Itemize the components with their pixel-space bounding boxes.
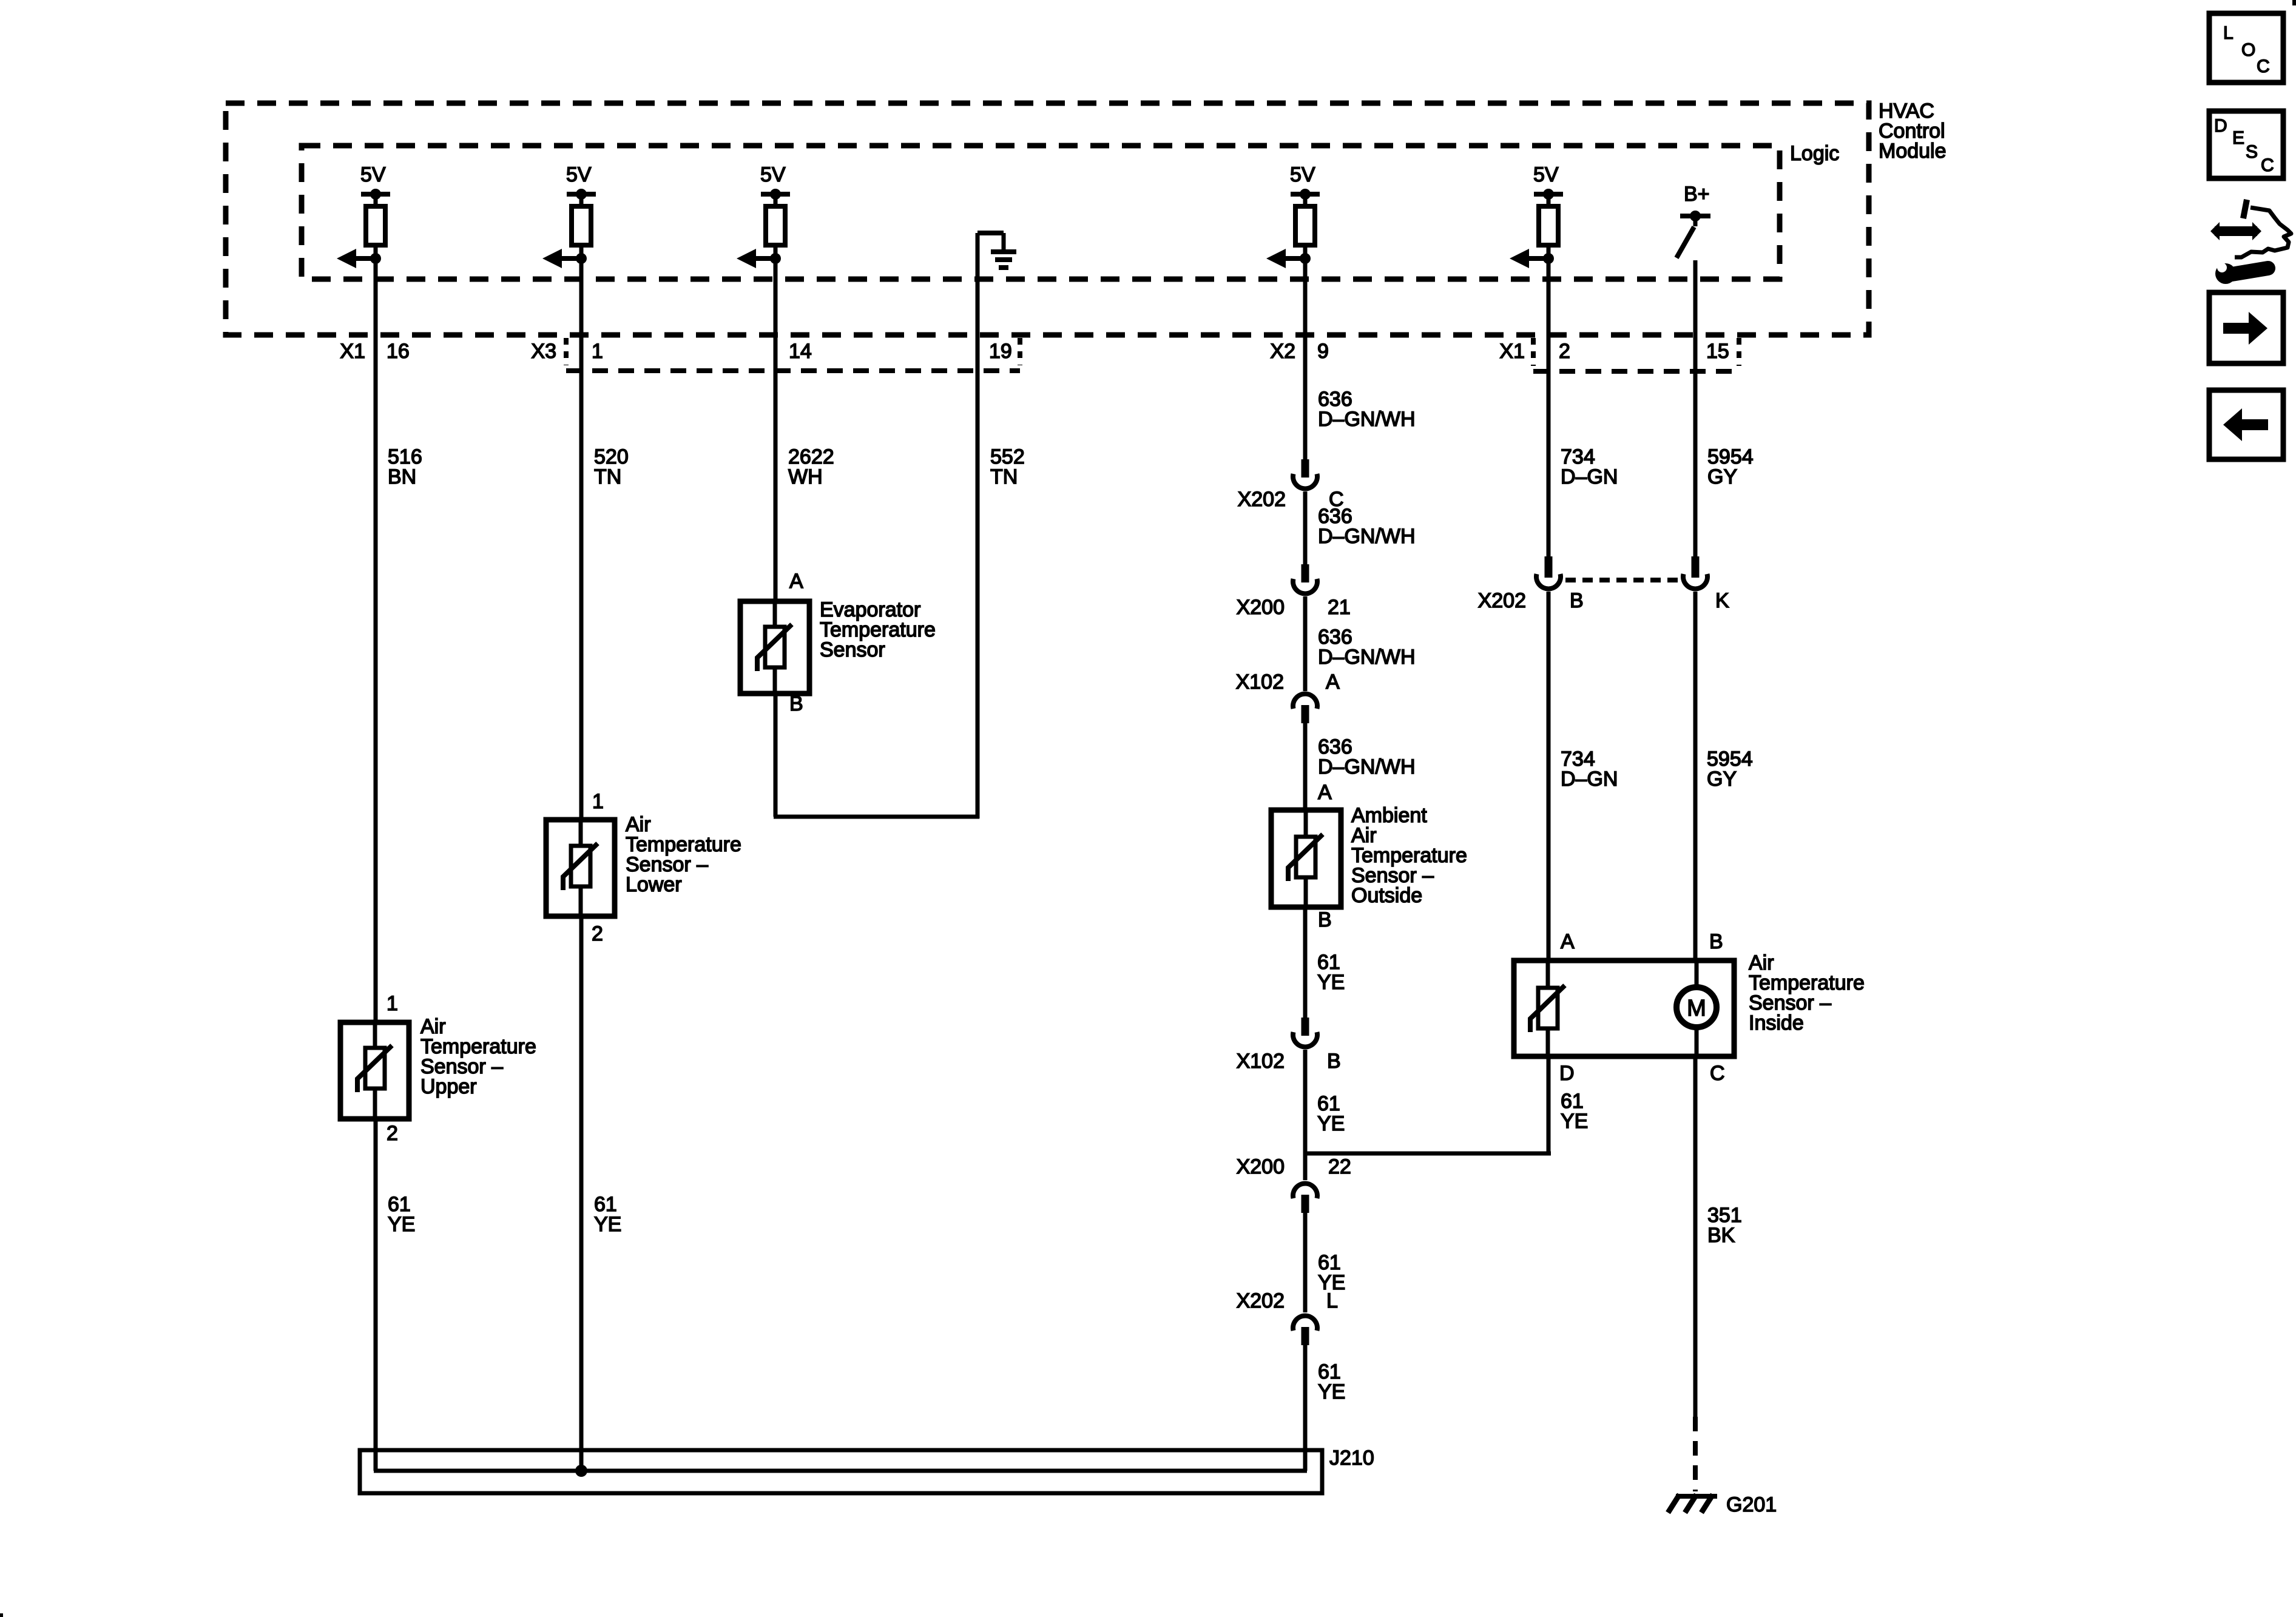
label Ambient Air Temperature Sensor - Outside	[1351, 804, 1467, 907]
Air Temperature Sensor - Inside box	[1514, 960, 1734, 1056]
pull-up resistor at x=958	[579, 194, 584, 206]
internal signal ground symbol (Logic)	[977, 233, 1016, 337]
wire label 61 YE (W5-4)	[1318, 1360, 1345, 1403]
junction dot (W2 at J210 bus)	[575, 1465, 587, 1477]
svg-text:A: A	[1318, 781, 1332, 804]
svg-text:B+: B+	[1684, 183, 1710, 206]
J210 internal bus wire	[374, 1469, 1307, 1473]
connector X102 A	[1293, 694, 1317, 723]
svg-text:C: C	[2257, 56, 2270, 76]
signal tap arrow at x=619	[374, 245, 378, 258]
wire 61 YE (W5 seg 6)	[1303, 1050, 1308, 1180]
svg-text:Upper: Upper	[420, 1075, 477, 1098]
thermistor (lower sensor)	[563, 820, 598, 916]
pull-up resistor at x=2151	[1303, 194, 1308, 206]
svg-text:5V: 5V	[566, 163, 592, 186]
svg-text:O: O	[2241, 40, 2255, 60]
svg-text:K: K	[1715, 589, 1729, 612]
corner mark top right	[2292, 0, 2296, 5]
connector X202 L	[1293, 1316, 1317, 1345]
svg-text:YE: YE	[1317, 971, 1345, 994]
svg-text:1: 1	[592, 340, 603, 363]
svg-text:X102: X102	[1237, 1050, 1285, 1073]
svg-text:X202: X202	[1478, 589, 1526, 612]
wire 61 YE (W1 lower segment)	[374, 1119, 378, 1471]
forward arrow icon box	[2209, 292, 2283, 363]
svg-text:B: B	[1709, 930, 1723, 953]
wire label 636 D-GN/WH (2)	[1318, 505, 1416, 548]
svg-text:YE: YE	[1318, 1380, 1345, 1403]
label HVAC Control Module	[1879, 100, 1947, 163]
wire 516 BN (W1 upper segment)	[374, 258, 378, 1024]
svg-text:YE: YE	[594, 1213, 621, 1236]
wire label 636 D-GN/WH (3)	[1318, 626, 1416, 669]
svg-text:9: 9	[1317, 340, 1329, 363]
wire label 520 TN	[594, 445, 629, 488]
svg-text:22: 22	[1328, 1155, 1351, 1178]
Logic dashed box	[302, 146, 1780, 279]
LOC icon box	[2209, 13, 2283, 83]
svg-text:X2: X2	[1270, 340, 1295, 363]
svg-text:Lower: Lower	[626, 873, 682, 896]
wire 734 D-GN (W6 seg 2)	[1547, 592, 1551, 962]
wire label 5954 GY (2)	[1707, 748, 1753, 791]
svg-text:16: 16	[387, 340, 410, 363]
svg-text:X200: X200	[1237, 596, 1285, 619]
signal tap arrow at x=2151	[1303, 245, 1308, 258]
label Air Temperature Sensor - Lower	[626, 813, 741, 896]
svg-text:2: 2	[1559, 340, 1570, 363]
wire label 61 YE (W6)	[1561, 1090, 1588, 1133]
connector X202 B	[1536, 556, 1561, 589]
connector label X200 21	[1237, 596, 1351, 619]
wire label 61 YE (W2)	[594, 1193, 621, 1236]
svg-text:X1: X1	[340, 340, 365, 363]
svg-text:E: E	[2232, 128, 2244, 148]
svg-text:B: B	[1570, 589, 1584, 612]
wire 5954 GY (W7 seg 1)	[1693, 260, 1698, 556]
junction dot at x=2151	[1300, 253, 1311, 264]
connector label X102 A	[1236, 670, 1340, 694]
pull-up resistor at x=1278	[774, 194, 778, 206]
hand with wrench icon	[2210, 200, 2291, 284]
svg-text:YE: YE	[1317, 1112, 1345, 1135]
svg-text:TN: TN	[594, 465, 621, 488]
pin label X2 9	[1270, 340, 1329, 363]
signal tap arrow at x=958	[579, 245, 584, 258]
svg-text:Logic: Logic	[1790, 142, 1839, 165]
junction dot at x=1278	[770, 253, 781, 264]
wire label 61 YE (W5-1)	[1317, 951, 1345, 994]
svg-text:YE: YE	[388, 1213, 415, 1236]
svg-text:14: 14	[789, 340, 812, 363]
power node B+ with open switch	[1676, 183, 1710, 258]
wire 636 D-GN/WH (W5 seg 2)	[1303, 491, 1308, 564]
wire 61 YE (W5 seg 5)	[1303, 907, 1308, 1018]
svg-text:A: A	[1561, 930, 1575, 953]
svg-text:B: B	[1318, 908, 1332, 931]
svg-text:WH: WH	[788, 465, 823, 488]
label Air Temperature Sensor - Upper	[420, 1015, 536, 1098]
thermistor (inside sensor)	[1530, 960, 1565, 1056]
wire label 734 D-GN (1)	[1561, 445, 1618, 488]
label Air Temperature Sensor - Inside	[1749, 951, 1865, 1035]
svg-text:D–GN/WH: D–GN/WH	[1318, 408, 1416, 431]
svg-text:B: B	[1327, 1050, 1341, 1073]
signal tap arrow at x=1278	[774, 245, 778, 258]
svg-text:M: M	[1687, 996, 1706, 1021]
wire label 2622 WH	[788, 445, 834, 488]
pin label X1 2	[1499, 340, 1570, 363]
Air Temperature Sensor - Lower box	[546, 820, 615, 916]
svg-text:2: 2	[387, 1122, 398, 1145]
svg-text:D–GN/WH: D–GN/WH	[1318, 646, 1416, 669]
svg-text:X202: X202	[1237, 1289, 1285, 1312]
svg-text:BK: BK	[1707, 1224, 1735, 1247]
svg-text:D–GN: D–GN	[1561, 768, 1618, 791]
motor M (aspirator)	[1676, 960, 1717, 1056]
svg-text:15: 15	[1706, 340, 1729, 363]
svg-text:L: L	[1326, 1289, 1338, 1312]
svg-text:5V: 5V	[760, 163, 786, 186]
svg-text:A: A	[1326, 670, 1340, 694]
connector X3 dotted outline	[566, 338, 1020, 371]
HVAC Control Module dashed box	[226, 103, 1869, 335]
svg-text:TN: TN	[990, 465, 1018, 488]
corner mark bottom left	[0, 1613, 3, 1617]
svg-text:S: S	[2246, 142, 2258, 162]
connector X1 dotted outline	[1533, 338, 1739, 371]
svg-text:X1: X1	[1499, 340, 1525, 363]
svg-text:L: L	[2223, 23, 2234, 43]
splice pack J210 box	[360, 1450, 1322, 1493]
back arrow icon box	[2209, 390, 2283, 459]
svg-text:21: 21	[1328, 596, 1351, 619]
wire 520 TN (W2 upper segment)	[579, 258, 584, 821]
pull-up resistor at x=2552	[1547, 194, 1551, 206]
wire label 734 D-GN (2)	[1561, 748, 1618, 791]
label Evaporator Temperature Sensor	[820, 598, 936, 661]
wire label 61 YE (W5-3)	[1318, 1251, 1345, 1294]
Air Temperature Sensor - Upper box	[340, 1022, 409, 1119]
svg-text:Sensor: Sensor	[820, 638, 885, 661]
svg-text:5V: 5V	[1533, 163, 1559, 186]
thermistor (evaporator sensor)	[757, 601, 792, 694]
svg-text:Inside: Inside	[1749, 1011, 1804, 1035]
svg-text:19: 19	[989, 340, 1012, 363]
connector label X202 B	[1478, 589, 1584, 612]
svg-text:5V: 5V	[360, 163, 386, 186]
signal tap arrow at x=2552	[1547, 245, 1551, 258]
junction dot at x=619	[370, 253, 381, 264]
svg-text:GY: GY	[1707, 465, 1737, 488]
svg-text:1: 1	[592, 790, 604, 813]
pin label X1 16	[340, 340, 409, 363]
svg-text:X102: X102	[1236, 670, 1284, 694]
wire 636 D-GN/WH (W5 seg 4)	[1303, 723, 1308, 811]
thermistor (upper sensor)	[357, 1022, 392, 1119]
svg-text:A: A	[789, 570, 803, 593]
wire from evaporator B to pin 19 (down, right, up)	[774, 694, 979, 817]
svg-text:Outside: Outside	[1351, 884, 1422, 907]
svg-text:YE: YE	[1561, 1110, 1588, 1133]
svg-text:X202: X202	[1238, 488, 1286, 511]
ground G201 symbol	[1668, 1494, 1717, 1513]
wire label 351 BK	[1707, 1204, 1742, 1247]
connector X200 22	[1293, 1184, 1317, 1213]
svg-text:Module: Module	[1879, 140, 1947, 163]
thermistor (ambient sensor)	[1288, 810, 1323, 907]
Evaporator Temperature Sensor box	[740, 601, 809, 694]
svg-text:C: C	[2261, 155, 2274, 175]
DESC icon box	[2209, 111, 2283, 178]
wire 636 D-GN/WH (W5 seg 1)	[1303, 258, 1308, 459]
connector X200 21	[1293, 564, 1317, 593]
Ambient Air Temperature Sensor - Outside box	[1271, 810, 1341, 907]
svg-text:5V: 5V	[1290, 163, 1315, 186]
connector label X102 B	[1237, 1050, 1341, 1073]
svg-text:C: C	[1710, 1062, 1725, 1085]
wire label 61 YE (W5-2)	[1317, 1092, 1345, 1135]
wire 2622 WH (W3 upper segment)	[774, 258, 778, 603]
wire label 636 D-GN/WH (4)	[1318, 735, 1416, 778]
connector label X202 C	[1238, 488, 1344, 511]
svg-text:B: B	[789, 692, 803, 715]
wire 351 BK dashed segment	[1693, 1417, 1698, 1491]
wire 734 D-GN (W6 seg 1)	[1547, 260, 1551, 556]
wire 61 YE (W5 seg 7)	[1303, 1213, 1308, 1312]
wire 636 D-GN/WH (W5 seg 3)	[1303, 596, 1308, 691]
svg-text:G201: G201	[1726, 1493, 1777, 1516]
svg-text:D–GN/WH: D–GN/WH	[1318, 755, 1416, 778]
svg-text:X200: X200	[1237, 1155, 1285, 1178]
svg-text:1: 1	[387, 992, 398, 1015]
junction dot at x=958	[576, 253, 587, 264]
svg-text:X3: X3	[531, 340, 556, 363]
wire label 516 BN	[388, 445, 422, 488]
wire 61 YE from pin D (down then left)	[1303, 1056, 1551, 1153]
svg-text:J210: J210	[1329, 1447, 1374, 1470]
pull-up resistor at x=619	[374, 194, 378, 206]
connector X202 tie line (dashed)	[1565, 578, 1679, 582]
wire label 636 D-GN/WH (1)	[1318, 388, 1416, 431]
connector label X202 L	[1237, 1289, 1338, 1312]
wire label 5954 GY (1)	[1707, 445, 1754, 488]
svg-text:D–GN/WH: D–GN/WH	[1318, 525, 1416, 548]
svg-text:2: 2	[592, 922, 603, 945]
connector X102 B	[1293, 1018, 1317, 1047]
wire 552 TN (W4 vertical)	[976, 337, 980, 819]
connector label X200 22	[1237, 1155, 1351, 1178]
svg-text:D: D	[2214, 116, 2227, 136]
svg-text:D: D	[1559, 1062, 1575, 1085]
connector X202 C	[1293, 459, 1317, 488]
pin label X3 1	[531, 340, 603, 363]
svg-text:D–GN: D–GN	[1561, 465, 1618, 488]
wire 61 YE (W2 lower segment)	[579, 916, 584, 1471]
junction dot at x=2552	[1543, 253, 1554, 264]
wire 61 YE (W5 seg 8)	[1303, 1345, 1308, 1471]
connector X202 K	[1683, 556, 1707, 589]
svg-text:GY: GY	[1707, 768, 1737, 791]
wire label 61 YE (W1)	[388, 1193, 415, 1236]
wire 351 BK solid segment	[1693, 1056, 1698, 1417]
wire label 552 TN	[990, 445, 1025, 488]
svg-text:BN: BN	[388, 465, 416, 488]
wire 5954 GY (W7 seg 2)	[1693, 592, 1698, 962]
